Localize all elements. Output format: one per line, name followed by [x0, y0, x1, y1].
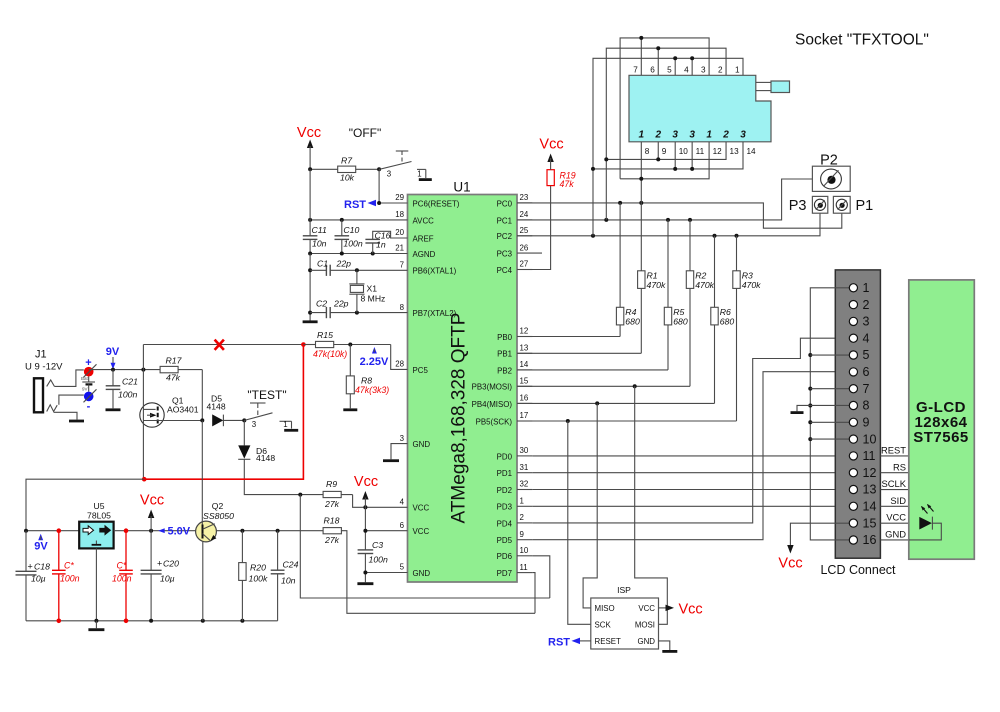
wire PB2 row [517, 369, 668, 371]
svg-text:47k(10k): 47k(10k) [313, 349, 347, 359]
wire Q2 collector line [216, 530, 323, 532]
wire jack sleeve to battery - [59, 395, 84, 405]
wire VCC pin 6 [365, 530, 407, 532]
resistor R2 470k [689, 220, 691, 271]
svg-text:R5: R5 [673, 307, 684, 317]
wire socket net2 top row [606, 48, 726, 220]
svg-text:R2: R2 [695, 271, 706, 281]
wire PB3 MOSI row [517, 385, 690, 387]
svg-text:2: 2 [722, 130, 729, 141]
svg-text:VCC: VCC [886, 512, 906, 523]
capacitor C20 10u electrolytic [150, 531, 152, 571]
svg-text:11: 11 [696, 147, 705, 156]
svg-text:Socket "TFXTOOL": Socket "TFXTOOL" [795, 32, 929, 49]
svg-text:PB5(SCK): PB5(SCK) [476, 417, 513, 426]
wire regulator output 5V line [114, 530, 196, 532]
svg-text:AGND: AGND [413, 250, 436, 259]
ground at C3 [357, 582, 373, 585]
svg-text:R3: R3 [742, 271, 753, 281]
svg-text:13: 13 [863, 483, 877, 497]
svg-text:5: 5 [863, 348, 870, 362]
red jumper wire [144, 345, 303, 480]
svg-text:12: 12 [863, 466, 877, 480]
resistor R7 [310, 168, 338, 170]
wire socket net1 bottom row [620, 142, 709, 179]
svg-text:C3: C3 [372, 540, 383, 550]
svg-text:14: 14 [863, 500, 877, 514]
wire U5 ground leg [95, 548, 97, 620]
svg-text:C2: C2 [316, 299, 327, 309]
svg-text:PD5: PD5 [497, 536, 513, 545]
svg-text:C*: C* [64, 561, 74, 571]
svg-text:13: 13 [730, 147, 740, 156]
svg-text:8: 8 [400, 303, 405, 312]
svg-text:9V: 9V [82, 387, 88, 392]
svg-text:6: 6 [863, 365, 870, 379]
svg-text:MISO: MISO [595, 604, 615, 613]
svg-text:-: - [87, 401, 91, 413]
svg-text:PC1: PC1 [497, 216, 512, 225]
svg-text:20: 20 [395, 228, 404, 237]
LCD connector pins [849, 284, 857, 292]
LED emission arrows [922, 505, 934, 514]
svg-text:U5: U5 [94, 501, 105, 511]
svg-text:R18: R18 [324, 516, 340, 526]
svg-text:Vcc: Vcc [140, 493, 164, 509]
svg-text:GND: GND [413, 569, 431, 578]
capacitor C1 22p [310, 269, 326, 271]
svg-text:4: 4 [400, 498, 405, 507]
svg-text:SS8050: SS8050 [203, 511, 234, 521]
wires LCD connector to G-LCD with labels [880, 455, 908, 457]
pushbutton switch "TEST" [242, 418, 246, 422]
svg-text:PC6(RESET): PC6(RESET) [413, 199, 460, 208]
svg-text:2.25V: 2.25V [360, 356, 389, 368]
ground at TEST switch [284, 429, 298, 432]
crystal X1 8 MHz [356, 270, 358, 284]
svg-text:PB2: PB2 [497, 366, 512, 375]
svg-text:32: 32 [520, 480, 529, 489]
svg-text:R6: R6 [720, 307, 731, 317]
capacitor C3 100n [358, 550, 374, 554]
svg-text:PC2: PC2 [497, 232, 512, 241]
svg-text:+: + [85, 357, 91, 369]
svg-text:3: 3 [252, 420, 257, 429]
svg-text:27k: 27k [324, 535, 340, 545]
svg-text:16: 16 [863, 533, 877, 547]
svg-text:15: 15 [863, 516, 877, 530]
svg-text:3: 3 [400, 434, 405, 443]
wire LCD GND bus vertical [810, 288, 849, 540]
wire MOSI to ISP [635, 386, 668, 624]
svg-text:VCC: VCC [413, 527, 430, 536]
wire PD4 to LCD pin 4 [532, 338, 849, 523]
svg-text:7: 7 [633, 65, 638, 74]
resistor R1 470k [640, 203, 642, 271]
svg-text:SCK: SCK [595, 621, 612, 630]
LED backlight diode [919, 517, 932, 530]
svg-text:3: 3 [672, 130, 678, 141]
svg-text:PD7: PD7 [497, 569, 512, 578]
svg-text:30: 30 [520, 446, 529, 455]
svg-text:PB1: PB1 [497, 350, 512, 359]
svg-text:"TEST": "TEST" [247, 388, 286, 402]
socket TFXTOOL body [629, 75, 771, 142]
svg-text:1: 1 [417, 170, 421, 179]
wire regulator input line [26, 530, 79, 532]
capacitor C18 10u electrolytic [25, 531, 27, 572]
svg-text:C*: C* [117, 561, 127, 571]
svg-text:C18: C18 [34, 562, 50, 572]
svg-text:9: 9 [662, 147, 667, 156]
svg-text:12: 12 [520, 327, 529, 336]
svg-text:5: 5 [400, 563, 405, 572]
wire 9V branch to regulator [26, 479, 144, 531]
svg-text:PB6(XTAL1): PB6(XTAL1) [413, 267, 457, 276]
svg-text:C10: C10 [343, 225, 359, 235]
svg-text:9V: 9V [34, 541, 48, 553]
wire GND pin 5 [365, 572, 407, 574]
svg-text:GND: GND [637, 637, 655, 646]
svg-text:9: 9 [520, 530, 525, 539]
resistor R8 47k(3k3) [349, 345, 351, 376]
svg-text:3: 3 [701, 65, 706, 74]
svg-text:17: 17 [520, 411, 529, 420]
svg-text:"OFF": "OFF" [349, 126, 382, 140]
svg-text:3: 3 [740, 130, 746, 141]
svg-text:4148: 4148 [207, 402, 226, 412]
svg-text:10: 10 [863, 432, 877, 446]
capacitor C* 100n (input, red) [58, 531, 60, 621]
svg-text:AREF: AREF [413, 234, 434, 243]
ground at ISP GND [659, 641, 670, 650]
wire PD6 loop [532, 556, 550, 598]
svg-text:RS: RS [893, 461, 906, 472]
wire XTAL ground column [309, 254, 311, 321]
svg-text:10: 10 [520, 546, 529, 555]
svg-text:C20: C20 [163, 559, 179, 569]
svg-text:26: 26 [520, 243, 529, 252]
svg-text:U1: U1 [453, 180, 470, 195]
ground at J1 [69, 420, 84, 423]
battery clip - terminal [84, 392, 94, 402]
ground at U1 GND pin 3 [391, 444, 408, 460]
svg-text:27: 27 [520, 260, 529, 269]
resistor R4 680 [619, 203, 621, 307]
connector LCD Connect body [835, 270, 880, 558]
ground at LCD pin 8 [797, 405, 810, 411]
svg-text:AVCC: AVCC [413, 216, 435, 225]
svg-text:7: 7 [863, 382, 870, 396]
wire measured-net R15 feed (cut) [143, 344, 303, 346]
svg-text:Vcc: Vcc [354, 474, 378, 490]
wire PC2 net [517, 213, 820, 235]
node 5.0V label [158, 528, 165, 533]
svg-text:100k: 100k [249, 574, 268, 584]
svg-text:470k: 470k [647, 280, 666, 290]
svg-text:PC5: PC5 [413, 366, 429, 375]
capacitor C11 [303, 236, 318, 240]
wire socket net2 bottom row [606, 142, 726, 160]
node RST label [368, 200, 377, 206]
svg-text:Vcc: Vcc [297, 125, 321, 141]
svg-text:P3: P3 [789, 198, 807, 214]
svg-text:Bat: Bat [81, 376, 89, 381]
svg-text:PD3: PD3 [497, 503, 513, 512]
ground at bottom rail [95, 621, 97, 628]
svg-text:14: 14 [520, 360, 529, 369]
svg-text:1: 1 [863, 281, 870, 295]
svg-text:3: 3 [689, 130, 695, 141]
svg-text:5: 5 [667, 65, 672, 74]
svg-text:100n: 100n [343, 239, 362, 249]
wire PD2 to LCD pin 13 [532, 489, 849, 491]
jack sleeve contact [47, 405, 58, 412]
display G-LCD 128x64 ST7565 [909, 280, 975, 559]
resistor R17 47k [160, 366, 178, 372]
svg-text:4148: 4148 [256, 453, 275, 463]
svg-text:12: 12 [713, 147, 723, 156]
wire R9 to VCC pin 4 [353, 495, 408, 508]
svg-text:31: 31 [520, 463, 529, 472]
svg-text:PD0: PD0 [497, 452, 513, 461]
svg-text:8 MHz: 8 MHz [361, 294, 386, 304]
svg-text:11: 11 [520, 563, 528, 572]
wire LCD pin 15 to Vcc [790, 523, 849, 545]
svg-text:14: 14 [747, 147, 757, 156]
wire Q2 emitter to ground rail [202, 542, 204, 621]
svg-text:100n: 100n [60, 574, 80, 584]
svg-text:R9: R9 [326, 479, 337, 489]
svg-text:2: 2 [520, 513, 524, 522]
ground below C1/C2 column [303, 320, 318, 323]
svg-text:LCD Connect: LCD Connect [820, 563, 896, 577]
svg-text:13: 13 [520, 344, 529, 353]
svg-text:R4: R4 [625, 307, 636, 317]
svg-text:3: 3 [863, 315, 870, 329]
capacitor C2 22p [310, 312, 326, 314]
jack tip contact [47, 380, 55, 387]
svg-text:680: 680 [673, 317, 688, 327]
svg-text:PB4(MISO): PB4(MISO) [472, 400, 513, 409]
svg-text:GND: GND [413, 440, 431, 449]
svg-text:R17: R17 [166, 356, 183, 366]
diode D6 4148 [243, 420, 245, 445]
svg-text:PD4: PD4 [497, 519, 513, 528]
wire R18 to PD7 loop [341, 531, 535, 614]
svg-text:28: 28 [395, 360, 404, 369]
wire to PC5 pin 28 [391, 345, 408, 370]
wire PC1 net [517, 179, 812, 220]
U1 left pin stubs [391, 202, 408, 204]
wire D6 node to PD6 loop [300, 495, 550, 598]
svg-text:1: 1 [520, 497, 524, 506]
svg-text:C24: C24 [283, 560, 299, 570]
svg-text:9: 9 [863, 416, 870, 430]
svg-text:U 9 -12V: U 9 -12V [25, 362, 63, 373]
wire R17 to gate node [201, 370, 203, 421]
MCU U1 ATMega8,168,328 QFTP body [408, 195, 518, 583]
svg-text:8: 8 [863, 399, 870, 413]
ground at R8 [343, 408, 357, 411]
wire Q1 drain down to red node [142, 421, 144, 480]
svg-text:X1: X1 [367, 284, 378, 294]
svg-text:4: 4 [684, 65, 689, 74]
svg-text:3: 3 [387, 170, 392, 179]
svg-text:11: 11 [863, 449, 876, 463]
svg-text:4: 4 [863, 331, 870, 345]
wire socket net3 top row [593, 58, 743, 236]
svg-text:22p: 22p [336, 259, 352, 269]
wire socket net3 bottom row [593, 142, 743, 169]
svg-text:10n: 10n [312, 239, 327, 249]
wire D6 cathode to R9 node [244, 459, 352, 494]
svg-text:100n: 100n [112, 574, 132, 584]
svg-text:10k: 10k [340, 173, 355, 183]
svg-text:J1: J1 [35, 349, 47, 361]
svg-text:10µ: 10µ [31, 574, 46, 584]
resistor R6 680 [714, 236, 716, 307]
svg-text:47k(3k3): 47k(3k3) [355, 385, 389, 395]
svg-text:Vcc: Vcc [778, 556, 802, 572]
svg-text:2: 2 [863, 298, 870, 312]
capacitor C* 100n (output, red) [125, 531, 127, 621]
wire PB1 row [517, 352, 641, 354]
svg-text:R20: R20 [250, 563, 266, 573]
node 2.25V label [372, 347, 377, 354]
wire PD3 to LCD pin 14 [532, 505, 849, 507]
svg-text:RST: RST [344, 199, 366, 211]
svg-text:100n: 100n [369, 555, 388, 565]
svg-text:22p: 22p [333, 299, 349, 309]
wire MISO to ISP [583, 403, 597, 608]
svg-text:PC4: PC4 [497, 266, 513, 275]
svg-text:1: 1 [706, 130, 712, 141]
node 9V label at U5 input [38, 534, 43, 541]
svg-text:27k: 27k [324, 499, 340, 509]
svg-text:6: 6 [650, 65, 655, 74]
wire LCD pin 10 [810, 438, 849, 440]
wire PB5 SCK row [517, 420, 737, 422]
cut mark X [215, 340, 224, 350]
svg-text:18: 18 [395, 210, 404, 219]
resistor R19 47k pullup [547, 170, 554, 186]
wire SCK to ISP [568, 421, 591, 624]
svg-text:10n: 10n [281, 576, 296, 586]
svg-text:10: 10 [679, 147, 689, 156]
wire PD5 to LCD pin 6 [532, 372, 849, 540]
svg-text:MOSI: MOSI [635, 621, 655, 630]
wire jack tip to battery + [54, 370, 83, 387]
svg-text:PC3: PC3 [497, 250, 513, 259]
svg-text:Q2: Q2 [212, 501, 224, 511]
svg-text:15: 15 [520, 377, 529, 386]
node Vcc at ISP VCC [659, 607, 667, 609]
svg-text:1: 1 [283, 420, 287, 429]
svg-text:GND: GND [885, 529, 906, 540]
svg-text:10µ: 10µ [160, 574, 175, 584]
socket handle [756, 81, 771, 83]
svg-text:29: 29 [395, 193, 404, 202]
svg-text:VCC: VCC [638, 604, 655, 613]
svg-text:+: + [28, 562, 33, 572]
svg-text:2: 2 [654, 130, 661, 141]
wire PB0 row [517, 336, 620, 338]
svg-text:1n: 1n [376, 240, 386, 250]
svg-text:8: 8 [645, 147, 650, 156]
svg-text:680: 680 [720, 317, 735, 327]
wire PD7 loop [532, 573, 535, 614]
svg-text:470k: 470k [695, 280, 714, 290]
svg-text:ISP: ISP [617, 585, 631, 595]
svg-text:RST: RST [548, 637, 570, 649]
svg-text:P1: P1 [856, 198, 874, 214]
wire RST to PC6 [379, 202, 407, 204]
svg-text:PD1: PD1 [497, 469, 512, 478]
svg-text:ST7565: ST7565 [913, 429, 969, 446]
ground at C21 [106, 408, 121, 411]
svg-text:R1: R1 [647, 271, 658, 281]
svg-text:6: 6 [400, 521, 405, 530]
resistor R18 27k [323, 528, 341, 534]
svg-text:PD2: PD2 [497, 486, 512, 495]
svg-text:PB3(MOSI): PB3(MOSI) [472, 383, 513, 392]
battery clip + terminal [84, 367, 94, 377]
wire LCD pin 9 [810, 421, 849, 423]
resistor R9 27k [323, 491, 341, 497]
svg-text:24: 24 [520, 210, 529, 219]
ground at OFF switch [419, 178, 432, 181]
svg-text:C1: C1 [317, 259, 328, 269]
svg-text:C11: C11 [312, 225, 327, 235]
wire AGND net [310, 253, 407, 255]
svg-text:1: 1 [639, 130, 645, 141]
svg-text:PB0: PB0 [497, 333, 513, 342]
battery symbol [82, 381, 95, 383]
svg-text:C21: C21 [122, 377, 138, 387]
wire PC4 to R19 [517, 186, 551, 270]
wire socket net1 top row [620, 38, 709, 179]
svg-text:47k: 47k [166, 373, 181, 383]
capacitor C21 100n [112, 370, 114, 386]
resistor R15 47k(10k) [303, 344, 315, 346]
svg-text:+: + [157, 559, 162, 569]
diode D5 4148 [200, 418, 204, 422]
wire 9V rail [89, 369, 160, 371]
svg-text:680: 680 [625, 317, 640, 327]
wire AVCC net [310, 219, 407, 221]
svg-text:78L05: 78L05 [87, 511, 111, 521]
svg-text:7: 7 [400, 261, 404, 270]
svg-text:PB7(XTAL2): PB7(XTAL2) [413, 309, 457, 318]
svg-text:Vcc: Vcc [679, 602, 703, 618]
wire PC0 net [517, 203, 842, 228]
wire LCD pin 8 [810, 404, 849, 406]
svg-text:47k: 47k [560, 179, 575, 189]
node RST at ISP RESET [579, 640, 591, 642]
svg-text:9V: 9V [106, 346, 120, 358]
wire sleeve to ground [54, 412, 77, 419]
svg-text:SCLK: SCLK [882, 478, 907, 489]
svg-text:25: 25 [520, 226, 529, 235]
svg-text:ATMega8,168,328 QFTP: ATMega8,168,328 QFTP [449, 313, 470, 524]
resistor R3 470k [736, 236, 738, 271]
resistor R20 100k [241, 531, 243, 563]
svg-text:R15: R15 [317, 330, 333, 340]
svg-text:2: 2 [718, 65, 723, 74]
wire bottom ground rail [26, 620, 278, 622]
capacitor C16 on AREF [373, 231, 408, 239]
